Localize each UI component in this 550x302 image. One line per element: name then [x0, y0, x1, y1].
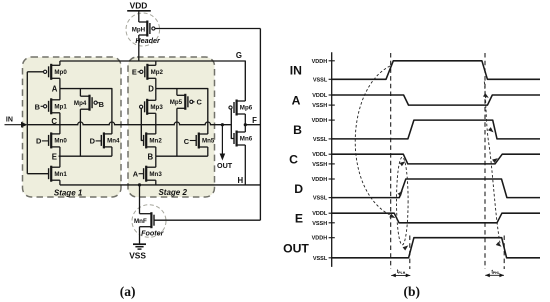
transistor Mp6 — [229, 100, 253, 125]
wire E to Mp2 — [138, 71, 140, 73]
svg-text:C: C — [184, 137, 190, 146]
svg-text:D: D — [148, 84, 154, 93]
waveform E — [332, 213, 540, 223]
tick VDDH B — [329, 119, 335, 121]
wire feedback vertical — [259, 29, 261, 221]
svg-text:IN: IN — [290, 64, 302, 78]
svg-text:VSSH: VSSH — [312, 162, 327, 168]
svg-text:B: B — [147, 152, 153, 161]
curve IN fall to OUT fall — [484, 82, 500, 246]
transistor Mn2 — [144, 125, 163, 157]
svg-text:Mp0: Mp0 — [54, 69, 67, 76]
ellipse C D OUT — [397, 157, 409, 245]
transistor Mn0 — [49, 125, 68, 157]
wire D to Mn4 — [96, 140, 102, 142]
wire D to Mn0 — [42, 140, 49, 142]
tPLH label — [397, 269, 406, 275]
transistor Mp1 — [44, 89, 68, 125]
OUT arrow — [221, 125, 223, 155]
wire C to Mn5 — [190, 140, 197, 142]
svg-text:(b): (b) — [404, 284, 421, 299]
transistor Mp5 — [170, 89, 193, 157]
node G rail — [60, 61, 245, 101]
svg-text:OUT: OUT — [217, 161, 233, 170]
node E wire — [59, 155, 112, 157]
transistor Mn6 — [234, 125, 253, 185]
VDD rail — [127, 10, 151, 12]
svg-text:VSSH: VSSH — [312, 103, 327, 109]
arrowhead at B fall — [488, 127, 494, 132]
tick VDDH IN — [329, 60, 335, 62]
tick VDDL C — [329, 153, 335, 155]
svg-text:VSSL: VSSL — [313, 137, 328, 143]
tPHL measure arrow — [485, 273, 504, 277]
waveform OUT — [332, 238, 540, 258]
svg-text:MpH: MpH — [132, 26, 146, 33]
svg-text:VDDL: VDDL — [312, 152, 328, 158]
svg-text:Mp2: Mp2 — [151, 69, 164, 76]
svg-text:B: B — [99, 100, 104, 109]
svg-text:A: A — [52, 85, 58, 94]
cursor 1 — [390, 53, 392, 269]
waveform C — [332, 154, 540, 164]
svg-text:E: E — [52, 153, 57, 162]
node D wire — [156, 89, 208, 134]
svg-text:D: D — [36, 137, 42, 146]
svg-text:Stage 2: Stage 2 — [158, 188, 187, 197]
tick VDDL E — [329, 212, 335, 214]
svg-text:VDD: VDD — [130, 0, 148, 10]
arrowhead at A rise — [483, 93, 489, 98]
IN arrowhead — [21, 122, 28, 128]
svg-text:Mn6: Mn6 — [240, 136, 253, 143]
svg-text:C: C — [51, 117, 57, 126]
wire B to Mp1 — [41, 105, 43, 107]
arrowhead at OUT fall — [496, 242, 502, 247]
transistor Mn5 — [196, 133, 215, 157]
svg-text:Mp6: Mp6 — [240, 105, 253, 112]
tick VSSL IN — [329, 78, 335, 80]
svg-text:Mn1: Mn1 — [54, 171, 67, 178]
cursor 2 — [409, 236, 411, 270]
svg-text:MnF: MnF — [134, 218, 147, 225]
row wire C to output gates — [27, 122, 231, 125]
transistor Mp0 — [44, 61, 68, 89]
tick VSSL OUT — [329, 257, 335, 259]
svg-text:Mn2: Mn2 — [149, 138, 162, 145]
wire MpH gate feedback — [155, 28, 260, 30]
svg-text:VDDH: VDDH — [312, 177, 328, 183]
svg-text:VDDL: VDDL — [312, 211, 328, 217]
svg-text:B: B — [293, 123, 302, 137]
svg-text:VDDH: VDDH — [312, 118, 328, 124]
node F wire — [245, 124, 260, 126]
cursor 3 — [484, 53, 486, 269]
svg-text:Mp1: Mp1 — [54, 104, 67, 111]
node B wire — [156, 155, 208, 157]
wire A to Mn3 — [139, 173, 144, 175]
svg-text:VSSL: VSSL — [313, 77, 328, 83]
svg-text:Mp4: Mp4 — [74, 100, 87, 107]
transistor MnF — [134, 185, 154, 244]
timing axis — [331, 52, 333, 267]
svg-text:(a): (a) — [120, 284, 136, 299]
tick VSSH E — [329, 222, 335, 224]
svg-text:Mn4: Mn4 — [107, 138, 120, 145]
svg-text:VSSL: VSSL — [313, 196, 328, 202]
tPHL label — [491, 269, 499, 275]
wire IN bus — [26, 72, 28, 174]
svg-text:VSSL: VSSL — [313, 256, 328, 262]
tick VDDH OUT — [329, 237, 335, 239]
svg-text:C: C — [197, 98, 203, 107]
wire Mp4 to B — [97, 102, 99, 104]
svg-text:VDDH: VDDH — [312, 236, 328, 242]
svg-text:F: F — [252, 116, 257, 125]
tick VDDH D — [329, 178, 335, 180]
svg-text:VSS: VSS — [129, 250, 146, 260]
wire Mp5 to C — [192, 101, 195, 103]
transistor Mn4 — [101, 132, 120, 156]
svg-text:E: E — [132, 68, 137, 77]
footer circle — [132, 205, 166, 238]
transistor MpH — [132, 11, 155, 61]
svg-text:PHL: PHL — [493, 271, 500, 275]
svg-text:B: B — [35, 103, 40, 112]
arrowhead at E fall — [389, 214, 395, 218]
OUT arrowhead — [220, 154, 226, 161]
waveform IN — [332, 61, 540, 80]
waveform B — [332, 120, 540, 139]
cursor 4 — [503, 236, 505, 270]
svg-text:PLH: PLH — [398, 271, 405, 275]
svg-text:A: A — [133, 170, 139, 179]
transistor Mn1 — [49, 156, 68, 185]
arrowhead at OUT rise — [403, 245, 409, 250]
svg-text:Header: Header — [135, 36, 161, 45]
tick VSSL B — [329, 138, 335, 140]
curve IN rise to E fall — [355, 66, 391, 216]
svg-text:A: A — [292, 94, 301, 108]
wire Mp0 gate — [27, 71, 43, 73]
stage 1 box — [23, 57, 122, 197]
node H wire — [60, 184, 261, 186]
header circle — [126, 13, 160, 46]
svg-text:Footer: Footer — [141, 229, 165, 238]
stage 2 box — [128, 57, 215, 197]
svg-text:Mn5: Mn5 — [202, 138, 215, 145]
svg-text:G: G — [236, 51, 242, 60]
svg-text:VDDL: VDDL — [312, 93, 328, 99]
transistor Mp2 — [140, 61, 164, 89]
transistor Mn3 — [144, 156, 163, 185]
svg-text:VDDH: VDDH — [312, 59, 328, 65]
svg-text:VSSH: VSSH — [312, 221, 327, 227]
svg-text:Mn3: Mn3 — [149, 171, 162, 178]
waveform D — [332, 179, 540, 198]
arrowhead at C rise — [492, 158, 498, 163]
svg-text:Mp5: Mp5 — [170, 99, 183, 106]
waveform A — [332, 95, 540, 105]
wire Mn1 gate — [27, 173, 48, 175]
junction dot MnF drain — [138, 183, 141, 186]
transistor Mp3 — [140, 89, 164, 125]
junction dot F — [244, 123, 247, 126]
svg-text:C: C — [289, 153, 298, 167]
tick VDDL A — [329, 94, 335, 96]
node A wire — [60, 89, 112, 134]
svg-text:IN: IN — [6, 116, 13, 123]
transistor Mp4 — [74, 89, 97, 157]
tick VSSL D — [329, 197, 335, 199]
ground symbol — [133, 244, 146, 249]
wire MnF gate — [154, 219, 260, 221]
output gate bus — [231, 109, 234, 138]
svg-text:D: D — [294, 182, 303, 196]
svg-text:Mn0: Mn0 — [54, 138, 67, 145]
tick VSSH A — [329, 104, 335, 106]
svg-text:H: H — [237, 176, 243, 185]
stage2 gate bus — [141, 109, 143, 141]
svg-text:D: D — [90, 137, 96, 146]
junction dot OUT tap — [221, 123, 224, 126]
tick VSSH C — [329, 163, 335, 165]
arrowhead at D rise — [398, 191, 403, 197]
svg-text:Mp3: Mp3 — [150, 104, 163, 111]
tPLH measure arrow — [391, 274, 410, 278]
arrowhead at C fall — [400, 161, 406, 166]
svg-text:OUT: OUT — [283, 241, 309, 255]
IN wire — [5, 124, 23, 126]
svg-text:Stage 1: Stage 1 — [54, 188, 83, 197]
svg-text:E: E — [295, 212, 303, 226]
